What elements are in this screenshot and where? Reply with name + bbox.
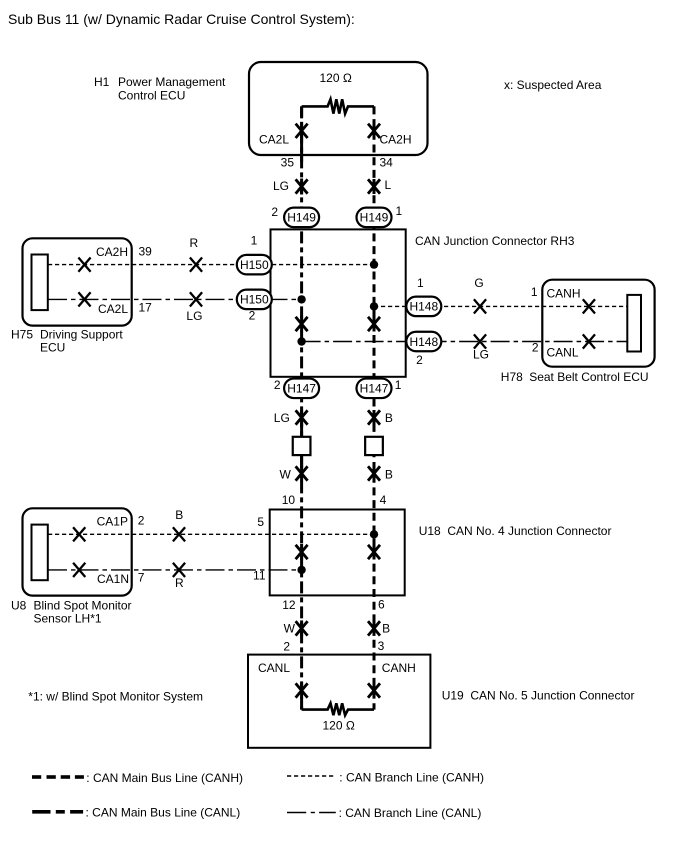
svg-text:CA2H: CA2H (96, 245, 128, 259)
svg-text:11: 11 (253, 569, 266, 583)
svg-text:2: 2 (138, 514, 145, 528)
svg-text:CANL: CANL (547, 346, 579, 360)
svg-text:*1: w/ Blind Spot Monitor Syst: *1: w/ Blind Spot Monitor System (28, 690, 203, 704)
svg-text:Driving Support: Driving Support (40, 328, 123, 342)
svg-text:120 Ω: 120 Ω (320, 71, 352, 85)
svg-text:B: B (385, 411, 393, 425)
svg-text:1: 1 (251, 234, 258, 248)
svg-text:LG: LG (274, 411, 290, 425)
svg-text:U18 CAN No. 4 Junction Connec: U18 CAN No. 4 Junction Connector (419, 524, 612, 538)
svg-text:6: 6 (378, 598, 385, 612)
svg-text:H150: H150 (240, 293, 269, 307)
svg-text:Blind Spot Monitor: Blind Spot Monitor (34, 599, 132, 613)
svg-text:H149: H149 (287, 211, 316, 225)
svg-text:H147: H147 (360, 382, 389, 396)
svg-text:CAN Junction Connector RH3: CAN Junction Connector RH3 (415, 234, 575, 248)
svg-text:CA1N: CA1N (97, 572, 129, 586)
svg-text:L: L (385, 178, 392, 192)
svg-text:B: B (382, 622, 390, 636)
svg-text:39: 39 (139, 245, 153, 259)
svg-text:Sensor LH*1: Sensor LH*1 (34, 612, 102, 626)
svg-text:H78: H78 (501, 370, 523, 384)
svg-text:CANH: CANH (547, 287, 581, 301)
svg-text:H148: H148 (409, 335, 438, 349)
svg-text:CA2L: CA2L (98, 302, 128, 316)
svg-text:B: B (175, 508, 183, 522)
svg-text:Seat Belt Control ECU: Seat Belt Control ECU (529, 370, 648, 384)
svg-text:U8: U8 (11, 599, 27, 613)
svg-text:G: G (474, 276, 483, 290)
svg-text:: CAN Main Bus Line (CANL): : CAN Main Bus Line (CANL) (86, 806, 241, 820)
svg-text:2: 2 (283, 639, 290, 653)
svg-text:H148: H148 (409, 300, 438, 314)
svg-text:: CAN Branch Line (CANH): : CAN Branch Line (CANH) (339, 771, 484, 785)
svg-text:R: R (175, 576, 184, 590)
svg-text:12: 12 (282, 598, 296, 612)
svg-text:17: 17 (139, 301, 153, 315)
svg-text:2: 2 (271, 205, 278, 219)
svg-text:H149: H149 (360, 211, 389, 225)
svg-text:5: 5 (257, 515, 264, 529)
svg-text:34: 34 (380, 156, 394, 170)
svg-text:10: 10 (282, 493, 296, 507)
svg-text:R: R (189, 236, 198, 250)
svg-text:1: 1 (396, 204, 403, 218)
svg-text:: CAN Branch Line (CANL): : CAN Branch Line (CANL) (339, 806, 482, 820)
svg-text:2: 2 (532, 341, 539, 355)
svg-text:7: 7 (138, 571, 145, 585)
svg-text:H75: H75 (11, 328, 33, 342)
svg-text:4: 4 (380, 493, 387, 507)
svg-text:LG: LG (186, 309, 202, 323)
svg-text:H147: H147 (287, 382, 316, 396)
svg-text:Control ECU: Control ECU (118, 89, 185, 103)
svg-text:1: 1 (531, 285, 538, 299)
svg-text:2: 2 (416, 353, 423, 367)
svg-text:x: Suspected Area: x: Suspected Area (504, 78, 602, 92)
svg-text:H1: H1 (94, 75, 110, 89)
svg-text:: CAN Main Bus Line (CANH): : CAN Main Bus Line (CANH) (86, 771, 243, 785)
svg-text:1: 1 (417, 276, 424, 290)
svg-text:2: 2 (274, 378, 281, 392)
svg-text:LG: LG (473, 348, 489, 362)
svg-text:3: 3 (378, 639, 385, 653)
svg-text:ECU: ECU (40, 341, 65, 355)
svg-text:B: B (385, 468, 393, 482)
svg-text:Power Management: Power Management (118, 75, 226, 89)
svg-text:120 Ω: 120 Ω (323, 719, 355, 733)
svg-text:CA1P: CA1P (97, 515, 128, 529)
svg-text:CANL: CANL (258, 661, 290, 675)
svg-text:CA2L: CA2L (259, 133, 289, 147)
svg-text:W: W (284, 622, 296, 636)
svg-text:LG: LG (273, 179, 289, 193)
svg-text:35: 35 (281, 156, 295, 170)
svg-text:CA2H: CA2H (380, 133, 412, 147)
svg-text:Sub Bus 11 (w/ Dynamic Radar C: Sub Bus 11 (w/ Dynamic Radar Cruise Cont… (8, 11, 355, 27)
svg-text:U19 CAN No. 5 Junction Connec: U19 CAN No. 5 Junction Connector (442, 689, 635, 703)
svg-text:2: 2 (249, 309, 256, 323)
svg-text:CANH: CANH (382, 661, 416, 675)
svg-text:1: 1 (395, 378, 402, 392)
svg-text:H150: H150 (240, 258, 269, 272)
svg-text:W: W (279, 468, 291, 482)
